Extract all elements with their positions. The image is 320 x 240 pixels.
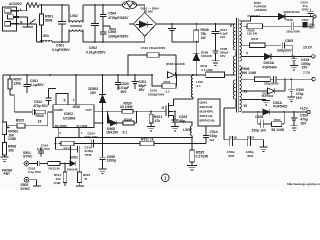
resistor R511 — [140, 141, 154, 145]
svg-text:2SK2545: 2SK2545 — [200, 105, 213, 109]
svg-text:6: 6 — [230, 24, 232, 28]
svg-text:0.01µF/250V: 0.01µF/250V — [86, 50, 106, 54]
capacitor C51B — [224, 136, 248, 146]
svg-text:hllp.//www.go-gddq.com: hllp.//www.go-gddq.com — [287, 182, 320, 186]
svg-text:RL905: RL905 — [144, 9, 153, 13]
svg-text:C510 150µF/400V: C510 150µF/400V — [141, 46, 165, 50]
node circle 1 mark — [162, 174, 170, 182]
svg-text:IS 1/4W: IS 1/4W — [77, 124, 88, 128]
wire 12V rail — [243, 111, 263, 113]
earth to chassis — [19, 17, 28, 27]
resistor R520 — [35, 110, 46, 114]
svg-text:0.1µ /50V: 0.1µ /50V — [28, 170, 41, 174]
transformer T501 secondary winding — [239, 21, 241, 62]
wire L line — [19, 5, 27, 11]
svg-text:1/4W: 1/4W — [54, 181, 61, 185]
IC pin stubs down — [58, 128, 79, 138]
svg-text:(1N4936): (1N4936) — [255, 8, 267, 12]
capacitor C504 — [100, 5, 107, 32]
wire 160V out — [250, 16, 279, 18]
ground C534 — [260, 140, 268, 152]
inductor L505 source — [190, 126, 192, 135]
svg-text:580k: 580k — [45, 19, 53, 23]
resistor R526 — [108, 110, 137, 112]
ground C523 — [171, 127, 179, 132]
svg-text:16V: 16V — [300, 121, 307, 125]
svg-text:Q503: Q503 — [200, 101, 208, 105]
capacitor C507 — [303, 22, 308, 28]
capacitor C517 — [212, 24, 220, 51]
wire bottom rail — [52, 36, 145, 42]
svg-text:50V: 50V — [121, 90, 128, 94]
svg-text:R525: R525 — [16, 119, 24, 123]
AC plug P501 — [2, 7, 16, 31]
diode D508 gate — [108, 111, 117, 125]
svg-text:120k: 120k — [14, 82, 22, 86]
svg-text:1000µF/2kV: 1000µF/2kV — [148, 93, 164, 97]
transistor Q503 MOSFET — [166, 103, 174, 118]
potentiometer VR501 — [2, 122, 6, 135]
resistor R507 — [9, 75, 11, 95]
wire COMP pin1 — [35, 112, 53, 126]
capacitor C518 — [289, 18, 313, 30]
resistor R544 — [206, 72, 225, 78]
svg-text:R516: R516 — [164, 80, 171, 84]
thermistor TH501 — [123, 1, 137, 9]
wire Vcc rail — [3, 74, 193, 76]
diode D512 — [263, 109, 270, 115]
wire 7.7V rail — [245, 78, 255, 80]
svg-text:16V: 16V — [296, 96, 303, 100]
svg-text:15.2V: 15.2V — [303, 46, 313, 50]
capacitor C516 — [29, 161, 48, 166]
resistor R516 loop — [152, 75, 177, 86]
svg-text:FUF5402: FUF5402 — [262, 94, 274, 98]
capacitor C530 — [288, 79, 294, 97]
resistor R524 — [78, 172, 82, 183]
pin7 stub — [75, 75, 77, 105]
svg-text:0.1: 0.1 — [197, 84, 202, 88]
svg-text:C505: C505 — [285, 39, 293, 43]
terminal 160V — [313, 15, 316, 18]
svg-text:220p-500V: 220p-500V — [286, 30, 300, 34]
svg-text:FUF5404: FUF5404 — [263, 66, 277, 70]
junction dots bottom — [55, 110, 193, 164]
svg-text:+12V: +12V — [300, 106, 309, 110]
resistor R525 — [7, 125, 48, 127]
resistor R514 430 — [64, 164, 66, 173]
ground C508 — [212, 61, 220, 66]
svg-text:1W: 1W — [201, 36, 207, 40]
svg-text:590 1/4W: 590 1/4W — [242, 71, 257, 75]
capacitor C514b — [38, 147, 44, 156]
ground C530 — [287, 97, 295, 102]
switch S on N line — [19, 19, 35, 24]
chassis tab — [23, 26, 34, 28]
svg-text:COMP: COMP — [54, 108, 63, 112]
svg-text:15V: 15V — [302, 66, 309, 70]
svg-text:D506 1N1408: D506 1N1408 — [166, 62, 185, 66]
capacitor C502 — [91, 5, 99, 42]
svg-text:100V: 100V — [308, 26, 315, 30]
svg-text:7: 7 — [73, 99, 75, 103]
svg-text:G: G — [162, 106, 165, 110]
svg-text:D502: D502 — [70, 155, 78, 159]
svg-text:35V: 35V — [139, 88, 146, 92]
junction dots secondary — [257, 16, 312, 113]
capacitor C513 3100p — [56, 146, 80, 172]
svg-text:47k: 47k — [155, 119, 161, 123]
ground R508 — [1, 157, 9, 162]
zener ZD502 — [99, 95, 106, 103]
fuse F501 — [27, 3, 40, 8]
svg-text:1000µF/330V: 1000µF/330V — [108, 34, 129, 38]
zener column continue — [102, 103, 104, 144]
resistor R530 — [243, 25, 289, 27]
terminal 12V — [307, 110, 310, 113]
wire rail low — [59, 143, 206, 145]
wire top rail — [39, 5, 145, 12]
capacitor C519 — [291, 56, 297, 65]
svg-text:R520A: R520A — [124, 117, 132, 121]
svg-text:2SK2142: 2SK2142 — [200, 114, 213, 118]
svg-text:120 1W: 120 1W — [247, 32, 257, 36]
svg-text:56 1/4W: 56 1/4W — [271, 128, 284, 132]
svg-text:GND: GND — [73, 105, 81, 109]
svg-text:C534: C534 — [248, 136, 255, 140]
terminal S501 — [24, 161, 29, 166]
svg-text:L503: L503 — [41, 34, 49, 38]
svg-text:1N1408: 1N1408 — [201, 54, 212, 58]
svg-text:470p 50V: 470p 50V — [33, 104, 48, 108]
svg-text:C528: C528 — [255, 115, 263, 119]
svg-text:0.1 1/2W: 0.1 1/2W — [202, 68, 214, 72]
ground pin13 — [243, 100, 270, 105]
resistor R521 — [150, 111, 152, 126]
svg-text:R561: R561 — [274, 118, 281, 122]
capacitor C521 — [270, 76, 312, 82]
resistor R546 — [255, 77, 271, 81]
label Q503 — [200, 101, 215, 123]
inductor L513 drain — [191, 76, 193, 98]
svg-text:IC502: IC502 — [64, 112, 73, 116]
svg-text:R513 56: R513 56 — [49, 167, 61, 171]
svg-text:18: 18 — [38, 120, 42, 124]
svg-text:AC220V: AC220V — [9, 2, 23, 6]
diode inside bridge — [136, 21, 153, 27]
capacitor C512b series — [10, 95, 34, 115]
wire N down — [29, 24, 40, 42]
resistor R513 — [48, 161, 60, 165]
capacitor C520 — [115, 75, 121, 90]
svg-text:L: L — [20, 7, 22, 11]
svg-text:1200p: 1200p — [107, 159, 117, 163]
svg-text:1/4W: 1/4W — [8, 137, 17, 141]
terminal 15.2V — [312, 55, 315, 58]
capacitor C512 — [46, 89, 57, 105]
op-amp IC502 UC3842 — [53, 105, 94, 128]
resistor R501 — [41, 5, 43, 42]
svg-text:4000: 4000 — [228, 154, 235, 158]
terminal S502 — [24, 177, 29, 182]
capacitor C523 — [172, 111, 179, 126]
box Q503 types — [198, 99, 220, 126]
zener D511 — [193, 53, 200, 75]
wire drain jog — [174, 98, 194, 100]
svg-text:R512: R512 — [64, 147, 72, 151]
ground R521 — [147, 127, 155, 132]
svg-text:(IRFBC40): (IRFBC40) — [200, 119, 215, 123]
svg-text:R520: R520 — [36, 114, 44, 118]
svg-text:FUF5402: FUF5402 — [273, 105, 287, 109]
capacitor C529 — [291, 112, 297, 126]
capacitor C524b rail2 — [91, 140, 93, 148]
svg-text:TB VREF: TB VREF — [55, 124, 68, 128]
capacitor C510 main filter — [168, 24, 176, 42]
resistor R547 — [245, 44, 281, 46]
capacitor C511 — [132, 75, 139, 89]
svg-text:FBT: FBT — [4, 172, 12, 176]
wire D502 up — [70, 146, 72, 161]
svg-text:SYNC: SYNC — [21, 187, 31, 190]
svg-text:7.7V: 7.7V — [303, 71, 311, 75]
svg-text:11: 11 — [244, 90, 248, 94]
wire S502 — [29, 180, 41, 186]
svg-text:68p: 68p — [180, 119, 186, 123]
svg-text:0.1µ/50V: 0.1µ/50V — [30, 83, 44, 87]
terminal 7.7V — [312, 78, 315, 81]
resistor R512 rail2 — [61, 141, 74, 146]
svg-text:18V: 18V — [90, 91, 97, 95]
junction dots — [171, 23, 216, 76]
svg-text:R511 1k: R511 1k — [141, 137, 154, 141]
svg-text:15: 15 — [243, 104, 247, 108]
wire secondary pin stubs — [241, 17, 250, 113]
capacitor C524 top — [308, 9, 314, 17]
capacitor C508 — [212, 51, 218, 61]
junction dots AC — [41, 4, 104, 43]
svg-text:0.27/2W: 0.27/2W — [196, 155, 209, 159]
svg-text:20k: 20k — [8, 149, 14, 153]
wire rail mid — [56, 137, 193, 139]
ground C555 — [99, 169, 107, 174]
transformer T501 core — [236, 18, 238, 113]
diode D508 sec — [279, 14, 286, 20]
svg-text:2N4148: 2N4148 — [67, 168, 78, 172]
capacitor C505 — [282, 42, 292, 56]
svg-text:1N4150: 1N4150 — [106, 131, 118, 135]
ground R535 — [187, 166, 197, 171]
wire left edge B+145V — [3, 75, 4, 123]
svg-text:160V: 160V — [302, 8, 309, 12]
svg-text:0.1µF/250V: 0.1µF/250V — [52, 48, 70, 52]
capacitor C506 — [100, 32, 107, 42]
svg-text:D510A: D510A — [264, 61, 275, 65]
diode D510 — [265, 54, 272, 60]
diode D502 — [70, 161, 75, 166]
svg-text:FUF5404: FUF5404 — [248, 14, 261, 18]
svg-text:47: 47 — [84, 177, 88, 181]
resistor R545 — [195, 24, 197, 53]
junction dots vcc — [26, 74, 177, 76]
inductor L503 — [40, 40, 52, 42]
wire primary pins — [225, 52, 236, 75]
svg-text:1kV: 1kV — [210, 138, 215, 142]
svg-text:L505: L505 — [183, 128, 191, 132]
transformer T501 primary winding — [233, 24, 235, 50]
capacitor C528 loop — [258, 112, 272, 128]
resistor R515 startup — [128, 55, 176, 75]
wire clamp bottom — [172, 41, 196, 43]
choke L502 — [69, 5, 83, 42]
svg-text:33 1/4W: 33 1/4W — [120, 105, 133, 109]
bridge rectifier D501-D504 — [133, 12, 156, 36]
svg-text:0.1µ /50V: 0.1µ /50V — [37, 147, 50, 151]
capacitor C555 — [100, 144, 106, 170]
svg-text:5.1: 5.1 — [123, 131, 128, 135]
svg-text:5.1: 5.1 — [166, 89, 171, 93]
svg-text:4700µF/330V: 4700µF/330V — [108, 16, 129, 20]
svg-text:C51B: C51B — [230, 136, 237, 140]
capacitor C541 — [24, 75, 31, 93]
svg-text:(K2645P): (K2645P) — [200, 110, 213, 114]
resistor R508 — [3, 135, 5, 158]
resistor R561 — [271, 122, 281, 127]
capacitor C501 — [58, 5, 66, 42]
wire 15V rail — [245, 55, 265, 57]
pin5 loop — [56, 93, 68, 104]
svg-text:PFM: PFM — [85, 153, 92, 157]
svg-text:OUT: OUT — [86, 108, 93, 112]
capacitor C534 — [248, 136, 264, 146]
wire left col down — [55, 138, 57, 150]
diode D506 — [168, 72, 176, 78]
svg-text:16V: 16V — [220, 54, 225, 58]
wire OUT pin — [94, 110, 108, 112]
svg-text:4000: 4000 — [247, 154, 254, 158]
svg-text:SYNC: SYNC — [23, 155, 33, 159]
wire source jog — [174, 122, 193, 126]
ground C529 — [290, 126, 297, 131]
resistor R535 — [190, 150, 194, 162]
svg-text:C518: C518 — [286, 18, 294, 22]
svg-text:1kV: 1kV — [220, 35, 225, 39]
svg-text:5: 5 — [64, 99, 66, 103]
resistor R520A — [117, 111, 166, 123]
svg-text:330p/1kV: 330p/1kV — [277, 48, 292, 52]
svg-text:330µ/500V: 330µ/500V — [264, 81, 279, 85]
svg-text:220p 50V: 220p 50V — [85, 135, 98, 139]
svg-text:D508 RU3A: D508 RU3A — [284, 10, 301, 14]
wire B+ rail — [156, 23, 235, 25]
ground C519 — [290, 66, 298, 71]
wire IS pin — [94, 122, 103, 124]
wire primary bottom — [224, 99, 235, 140]
svg-text:UC3842: UC3842 — [63, 116, 76, 120]
chassis ground tap — [103, 26, 116, 29]
zener ZD502 line — [102, 75, 104, 95]
svg-text:R547: R547 — [251, 37, 259, 41]
svg-text:L502: L502 — [70, 14, 78, 18]
svg-text:220p 1kV: 220p 1kV — [252, 128, 267, 132]
capacitor C514 — [203, 126, 209, 144]
diode D510A row pin11 — [245, 88, 275, 94]
